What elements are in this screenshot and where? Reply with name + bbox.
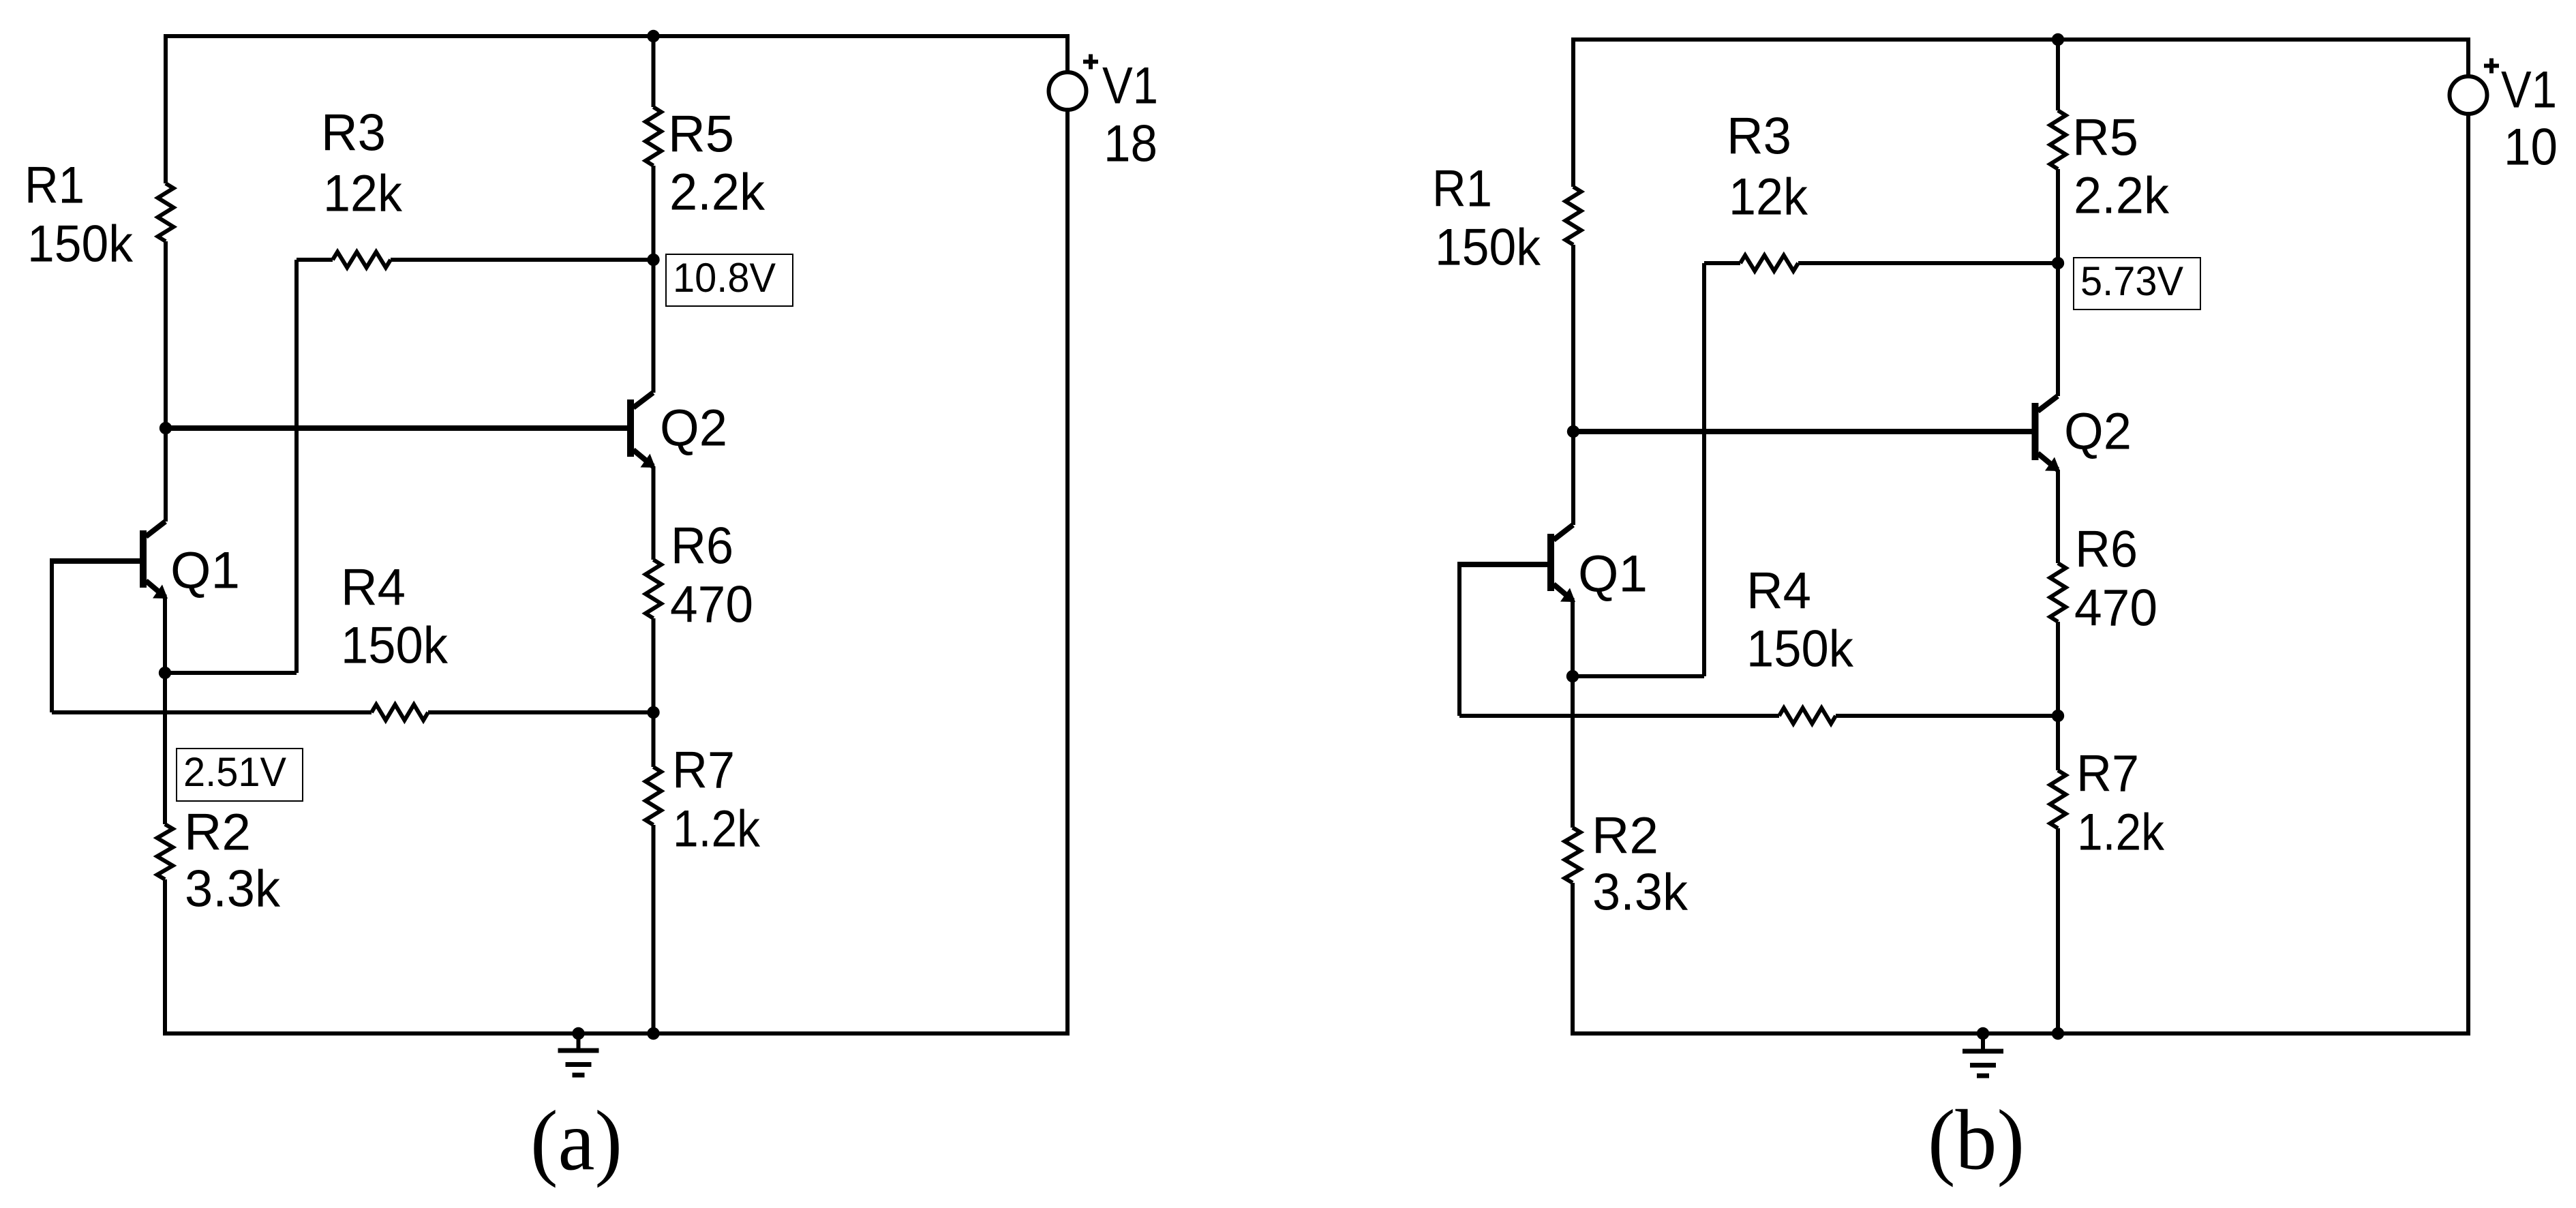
wire bottom rail (a) xyxy=(163,1031,1070,1036)
wire Q1 base to R4 (b) xyxy=(1459,714,1779,718)
svg-text:10.8V: 10.8V xyxy=(673,255,776,301)
svg-text:R6: R6 xyxy=(2075,521,2138,579)
svg-text:(a): (a) xyxy=(530,1094,622,1189)
svg-text:12k: 12k xyxy=(1729,168,1808,226)
wire Q1 emitter down (b) xyxy=(1571,601,1575,676)
transistor Q2 (b) xyxy=(2032,396,2061,471)
svg-text:1.2k: 1.2k xyxy=(2077,804,2165,862)
V1 plus sign (b) xyxy=(2484,59,2499,74)
svg-text:2.51V: 2.51V xyxy=(183,749,286,795)
wire Q2 emitter to R6 (a) xyxy=(652,466,656,560)
svg-text:R3: R3 xyxy=(1727,108,1791,166)
node R7 bottom (a) xyxy=(647,1027,659,1040)
svg-text:R5: R5 xyxy=(2072,109,2138,167)
wire Q1 base (b) xyxy=(1459,562,1548,567)
wire Q1 base to R4 (a) xyxy=(52,710,372,714)
node R5 top (b) xyxy=(2052,33,2064,46)
wire left column upper (to R1) (b) xyxy=(1571,40,1575,187)
ground (b) xyxy=(1963,1033,2003,1076)
node R3/R5/Q2 collector (b) xyxy=(2052,257,2064,269)
svg-text:3.3k: 3.3k xyxy=(185,860,281,918)
svg-text:R7: R7 xyxy=(2076,745,2139,803)
svg-text:18: 18 xyxy=(1104,115,1157,173)
svg-text:Q1: Q1 xyxy=(1578,545,1648,603)
wire Q2 base (b) xyxy=(1573,429,2033,434)
wire emitter to R3 riser (b) xyxy=(1573,674,1704,678)
resistor R6 (b) xyxy=(2050,563,2066,622)
svg-text:R6: R6 xyxy=(671,517,733,575)
transistor Q2 (a) xyxy=(627,393,656,468)
wire R3 riser (b) xyxy=(1702,263,1706,676)
node R3/R5/Q2 collector (a) xyxy=(647,254,659,266)
svg-text:(b): (b) xyxy=(1928,1093,2025,1188)
svg-text:150k: 150k xyxy=(1435,219,1541,277)
wire R2 to bottom rail (a) xyxy=(163,879,167,1033)
wire R2 to bottom rail (b) xyxy=(1571,883,1575,1033)
svg-text:2.2k: 2.2k xyxy=(2074,167,2170,225)
node ground tap (b) xyxy=(1977,1027,1989,1040)
resistor R1 (b) xyxy=(1566,187,1581,245)
wire Q1 base riser down (a) xyxy=(50,558,54,712)
svg-text:R1: R1 xyxy=(1432,160,1492,218)
svg-text:R2: R2 xyxy=(1592,807,1658,865)
svg-text:150k: 150k xyxy=(1746,620,1854,678)
svg-text:10: 10 xyxy=(2504,119,2558,177)
wire Q2 base (a) xyxy=(166,425,628,431)
resistor R2 (b) xyxy=(1565,828,1581,883)
svg-text:12k: 12k xyxy=(323,165,403,223)
node R5 top (a) xyxy=(647,30,659,42)
svg-text:Q2: Q2 xyxy=(660,399,727,457)
resistor R7 (b) xyxy=(2050,770,2066,828)
wire emitter node down to R2 (a) xyxy=(163,673,167,824)
svg-text:R5: R5 xyxy=(668,106,734,164)
node Q2 base / R1 bottom (b) xyxy=(1567,425,1579,438)
svg-text:150k: 150k xyxy=(27,215,134,273)
svg-text:2.2k: 2.2k xyxy=(669,164,766,222)
svg-text:R7: R7 xyxy=(672,742,735,800)
ground (a) xyxy=(558,1033,599,1075)
wire bottom rail (b) xyxy=(1571,1031,2470,1036)
svg-text:V1: V1 xyxy=(2501,61,2557,119)
svg-text:R4: R4 xyxy=(341,559,406,617)
wire Q1 emitter down (a) xyxy=(163,597,167,673)
svg-text:Q1: Q1 xyxy=(170,542,240,600)
transistor Q1 (a) xyxy=(140,522,168,599)
svg-text:R2: R2 xyxy=(184,804,251,862)
svg-text:470: 470 xyxy=(2074,579,2157,637)
wire Q2 emitter to R6 (b) xyxy=(2056,470,2060,563)
wire top rail (b) xyxy=(1571,37,2470,42)
node Q1 emitter / R3 tap (a) xyxy=(159,667,171,679)
wire emitter to R3 riser (a) xyxy=(165,671,297,675)
wire left column upper (to R1) (a) xyxy=(164,36,168,183)
resistor R5 (b) xyxy=(2050,110,2066,169)
node R6/R7/R4 (a) xyxy=(647,706,659,719)
wire left column mid (R1 to Q1 collector) (b) xyxy=(1571,245,1575,525)
wire R5 to Q2 collector (b) xyxy=(2056,169,2060,396)
node R7 bottom (b) xyxy=(2052,1027,2064,1040)
svg-text:R3: R3 xyxy=(321,104,386,162)
resistor R7 (a) xyxy=(646,767,661,825)
probe box 10.8V node (a) xyxy=(666,254,793,306)
resistor R6 (a) xyxy=(646,560,661,618)
wire top rail (a) xyxy=(164,34,1070,38)
wire R3 riser (a) xyxy=(294,260,299,673)
svg-text:3.3k: 3.3k xyxy=(1592,864,1688,922)
probe box 5.73V node (b) xyxy=(2074,258,2200,309)
svg-text:5.73V: 5.73V xyxy=(2080,258,2183,304)
wire emitter node down to R2 (b) xyxy=(1571,676,1575,828)
wire R6 to R7 (b) xyxy=(2056,622,2060,770)
wire left column mid (R1 to Q1 collector) (a) xyxy=(164,241,168,522)
node ground tap (a) xyxy=(572,1027,584,1040)
probe box 2.51V node (a) xyxy=(177,749,303,801)
svg-text:R1: R1 xyxy=(25,157,85,215)
svg-text:V1: V1 xyxy=(1102,57,1158,115)
node Q2 base / R1 bottom (a) xyxy=(160,422,172,434)
node R6/R7/R4 (b) xyxy=(2052,710,2064,722)
wire R7 to bottom rail (b) xyxy=(2056,828,2060,1033)
svg-text:R4: R4 xyxy=(1746,562,1811,620)
resistor R2 (a) xyxy=(157,824,173,879)
svg-text:470: 470 xyxy=(670,576,753,634)
svg-text:1.2k: 1.2k xyxy=(673,800,761,858)
V1 plus sign (a) xyxy=(1083,55,1098,70)
voltage source V1 (a) xyxy=(1049,36,1087,1033)
svg-text:Q2: Q2 xyxy=(2064,403,2132,461)
svg-text:150k: 150k xyxy=(341,617,449,675)
resistor R1 (a) xyxy=(158,183,174,241)
wire Q1 base (a) xyxy=(52,558,140,564)
wire R4 to emitter node of Q2 (b) xyxy=(1836,714,2058,718)
transistor Q1 (b) xyxy=(1547,525,1575,602)
resistor R3 (b) xyxy=(1704,256,2058,271)
resistor R5 (a) xyxy=(646,107,661,166)
wire R4 to emitter node of Q2 (a) xyxy=(428,710,654,714)
wire R5 top (a) xyxy=(652,36,656,107)
voltage source V1 (b) xyxy=(2450,40,2487,1033)
wire Q1 base riser down (b) xyxy=(1457,562,1461,716)
wire R7 to bottom rail (a) xyxy=(652,825,656,1033)
wire R5 to Q2 collector (a) xyxy=(652,166,656,393)
node Q1 emitter / R3 tap (b) xyxy=(1566,670,1579,682)
wire R6 to R7 (a) xyxy=(652,618,656,767)
resistor R4 (b) xyxy=(1779,708,1836,724)
resistor R3 (a) xyxy=(297,252,654,268)
wire R5 top (b) xyxy=(2056,40,2060,110)
resistor R4 (a) xyxy=(372,705,428,721)
